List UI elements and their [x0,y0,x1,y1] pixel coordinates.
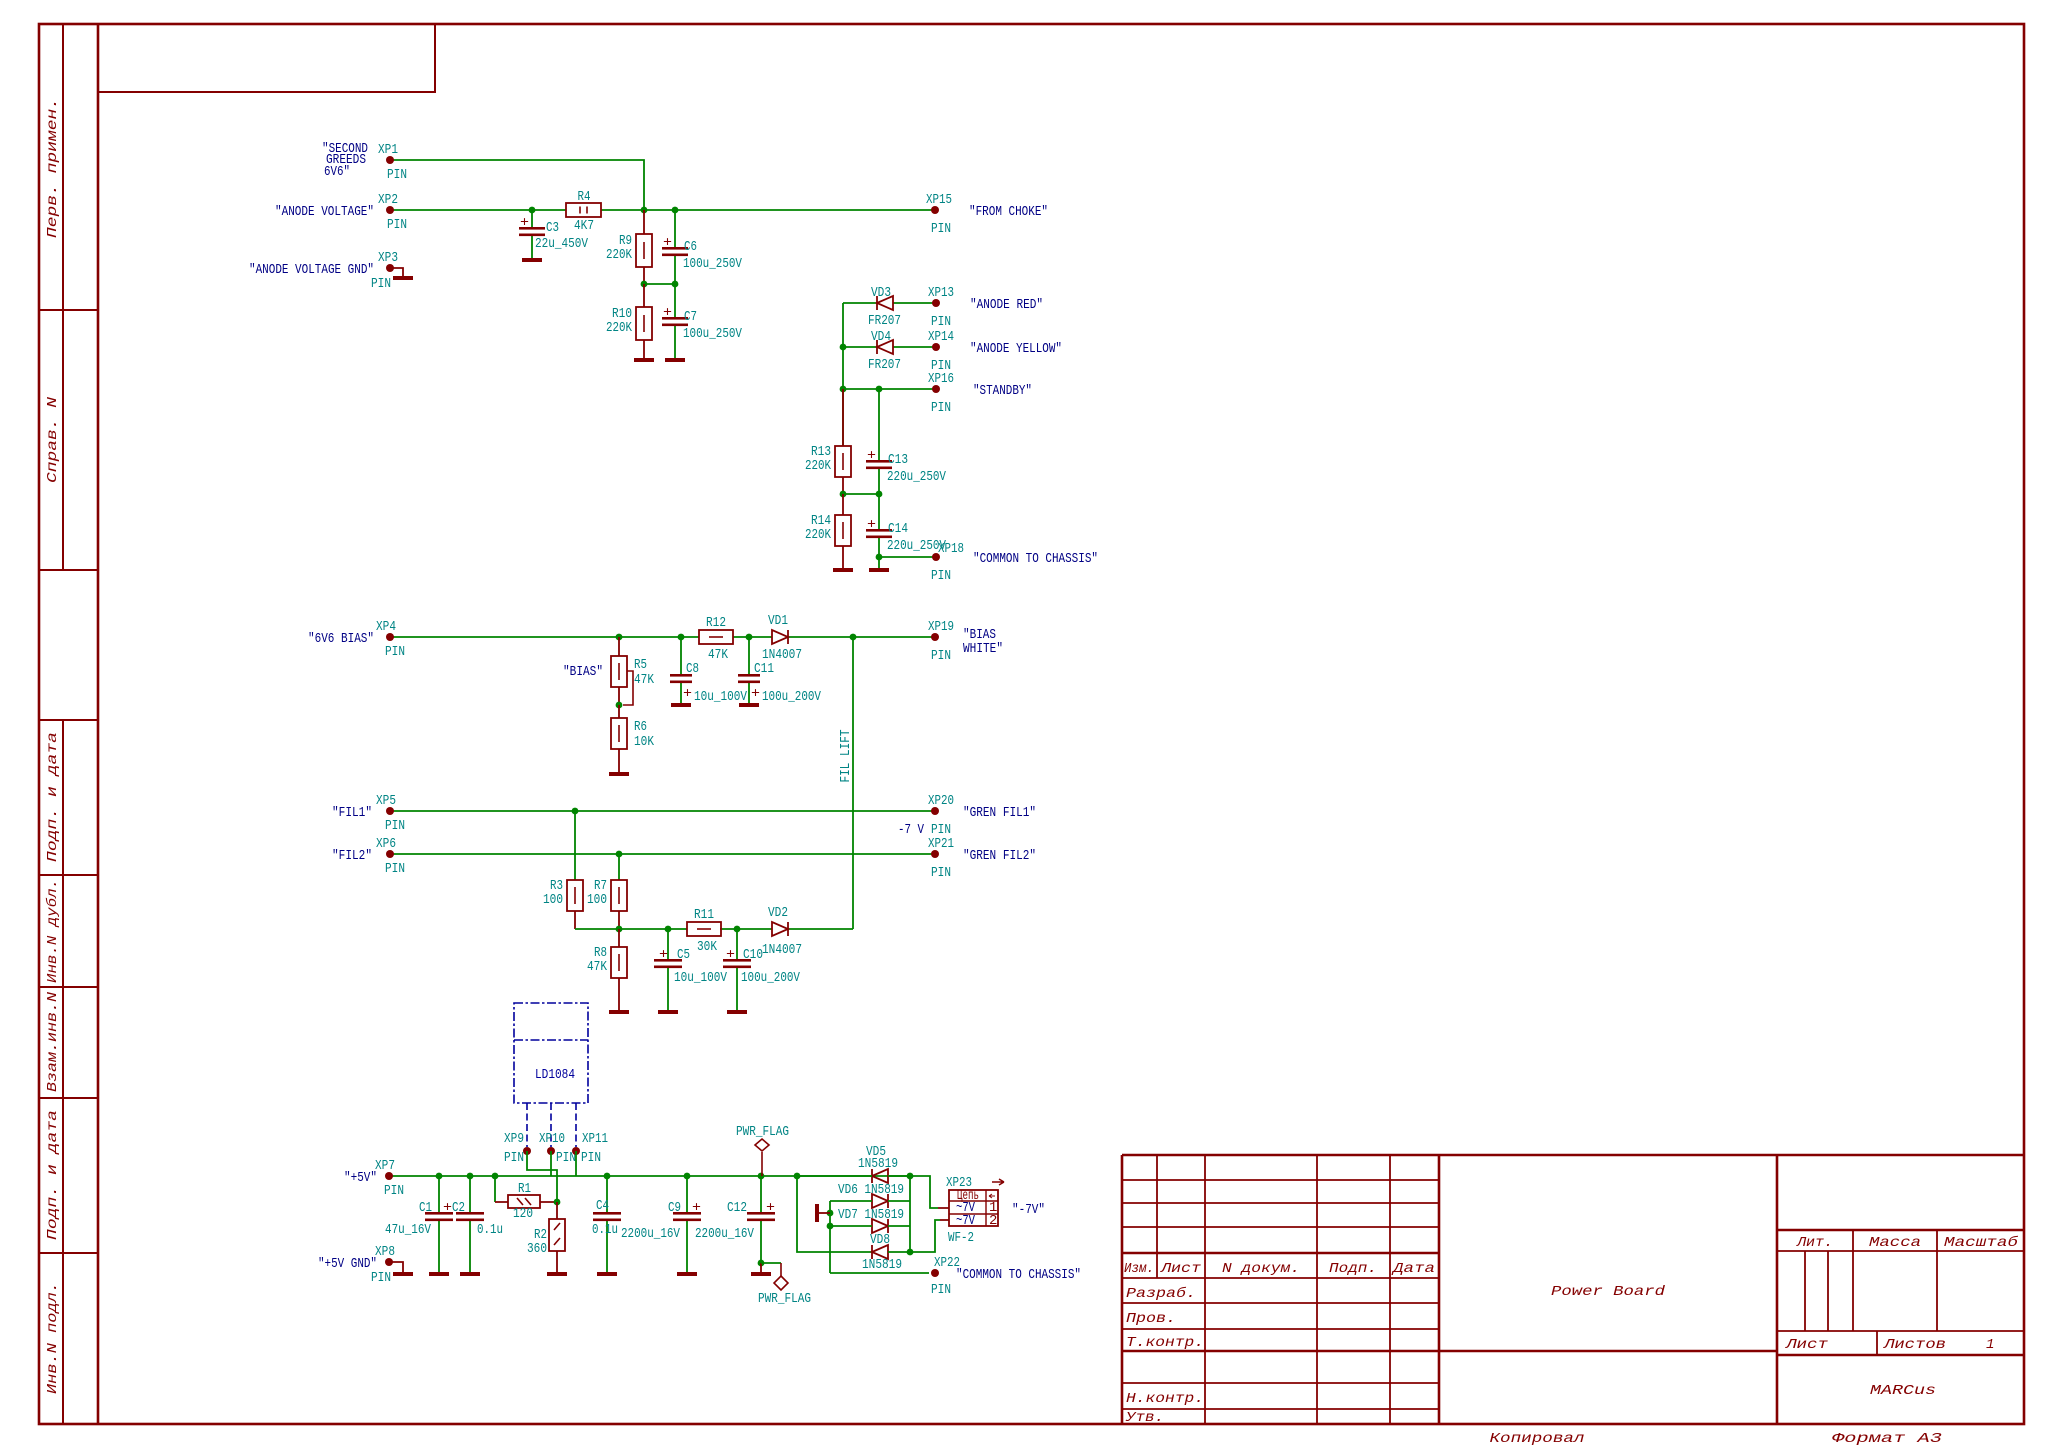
svg-text:Разраб.: Разраб. [1126,1285,1196,1302]
resistor R8 [587,929,627,1010]
resistor R10 [606,284,652,358]
left column box Inv N dubl [39,875,98,987]
diode VD8 1N5819 [872,1245,888,1259]
svg-text:PIN: PIN [371,276,391,292]
capacitor C4 [592,1176,621,1272]
capacitor C5 [654,929,727,1010]
svg-text:C13: C13 [888,452,908,468]
resistor R6 [611,705,654,772]
wire XP5 to XP20 [390,810,935,812]
wire +5V bus [389,1176,938,1208]
svg-text:"BIAS": "BIAS" [563,664,603,680]
junction VD4 [840,344,847,351]
svg-text:+: + [659,947,668,963]
svg-text:Подп.: Подп. [1329,1261,1377,1277]
junction VD5 left [794,1173,801,1180]
connector XP22 [931,1269,939,1277]
wire VD6 row [830,1200,910,1202]
title block right section lines [1777,1250,2024,1252]
wire FIL LIFT vertical [852,637,854,929]
junction VD7 left [827,1223,834,1230]
junction C5 [665,926,672,933]
connector XP14 [932,343,940,351]
svg-text:XP9: XP9 [504,1131,524,1147]
svg-text:-7 V: -7 V [898,822,924,838]
svg-text:6V6": 6V6" [324,164,350,180]
capacitor C9 [621,1176,701,1272]
svg-text:C10: C10 [743,947,763,963]
connector XP23 [938,1175,1004,1246]
svg-text:XP19: XP19 [928,619,954,635]
svg-text:R12: R12 [706,615,726,631]
svg-text:C9: C9 [668,1200,681,1216]
wire vertical VD3 branch [842,303,844,446]
svg-text:XP3: XP3 [378,250,398,266]
svg-text:Н.контр.: Н.контр. [1126,1391,1204,1407]
svg-text:"FROM CHOKE": "FROM CHOKE" [969,204,1048,220]
svg-text:"FIL1": "FIL1" [332,805,372,821]
wire node R9-C6 [644,283,675,285]
wire VD8 row to XP23 pin2 [888,1220,940,1252]
svg-text:100u_250V: 100u_250V [683,256,742,272]
title block outline [1122,1154,2024,1157]
svg-text:47K: 47K [708,647,728,663]
wire XP1 to node [390,160,644,210]
svg-text:22u_450V: 22u_450V [535,236,588,252]
connector XP20 [931,807,939,815]
wire XP2 to R4 [390,209,566,211]
svg-text:PIN: PIN [931,221,951,237]
junction R3 top [572,808,579,815]
svg-text:XP21: XP21 [928,836,954,852]
svg-text:47u_16V: 47u_16V [385,1222,431,1238]
svg-text:Утв.: Утв. [1125,1410,1164,1426]
wire XP11 to bus [575,1151,577,1176]
svg-text:"+5V": "+5V" [344,1170,377,1186]
wire right branch B down [909,1176,911,1252]
svg-text:220K: 220K [805,527,831,543]
ground at C14 [869,568,889,572]
svg-text:C12: C12 [727,1200,747,1216]
svg-text:XP10: XP10 [539,1131,565,1147]
svg-text:+: + [683,686,692,702]
svg-text:~7V: ~7V [956,1213,975,1229]
wire XP4 to R12 [390,636,699,638]
junction at C3 [529,207,536,214]
resistor R13 [805,389,851,494]
left column box Sprav N [39,310,98,570]
ground at C12 [751,1272,771,1276]
svg-text:VD8: VD8 [870,1232,890,1248]
svg-text:PIN: PIN [931,568,951,584]
connector XP21 [931,850,939,858]
svg-text:Power Board: Power Board [1551,1284,1666,1300]
connector XP2 [386,206,394,214]
svg-text:XP20: XP20 [928,793,954,809]
wire XP22 row [830,1272,929,1274]
svg-text:PIN: PIN [931,1282,951,1298]
connector XP9 [523,1147,531,1155]
junction R1 left [492,1173,499,1180]
svg-text:VD1: VD1 [768,613,788,629]
svg-text:Формат A3: Формат A3 [1832,1431,1942,1447]
svg-text:Подп. и дата: Подп. и дата [45,732,61,862]
junction at C6 [672,207,679,214]
junction R5 top [616,634,623,641]
left column rotated labels [44,98,61,1394]
svg-text:C14: C14 [888,521,908,537]
svg-text:PIN: PIN [931,314,951,330]
svg-text:PIN: PIN [385,818,405,834]
pin bar connector [817,1204,830,1222]
svg-text:MARCus: MARCus [1870,1383,1936,1399]
svg-text:1N5819: 1N5819 [862,1257,902,1273]
junction R5-R6 [616,702,623,709]
connector XP13 [932,299,940,307]
svg-text:C7: C7 [684,309,697,325]
connector XP5 [386,807,394,815]
wire XP18 row [879,557,935,568]
svg-text:Изм.: Изм. [1124,1261,1154,1277]
svg-text:360: 360 [527,1241,547,1257]
wire XP6 to XP21 [390,853,935,855]
left column box Inv N podl [39,1253,98,1424]
svg-text:120: 120 [513,1206,533,1222]
capacitor C1 [385,1176,453,1272]
capacitor C14 [866,494,946,557]
junction C9 [684,1173,691,1180]
net label SECOND GREEDS 6V6 [322,141,368,180]
svg-text:100u_200V: 100u_200V [741,970,800,986]
svg-text:+: + [663,235,672,251]
ground at R2 [547,1272,567,1276]
capacitor C8 [670,637,747,705]
svg-text:"ANODE YELLOW": "ANODE YELLOW" [970,341,1062,357]
svg-text:VD7 1N5819: VD7 1N5819 [838,1207,904,1223]
wire XP9 to R1 node [527,1151,557,1202]
junction C4 [604,1173,611,1180]
svg-text:VD4: VD4 [871,329,891,345]
svg-text:PIN: PIN [384,1183,404,1199]
connector XP7 [385,1172,393,1180]
resistor R12 [699,615,733,663]
svg-text:PIN: PIN [387,167,407,183]
title block left table lines [1156,1155,1158,1278]
ground at C9 [677,1272,697,1276]
wire XP10 to bus [550,1151,552,1176]
svg-text:220u_250V: 220u_250V [887,469,946,485]
junction R1-R2 node [554,1199,561,1206]
connector XP11 [572,1147,580,1155]
resistor R11 [687,907,721,955]
wire XP8 to ground [389,1262,403,1272]
svg-text:"ANODE VOLTAGE": "ANODE VOLTAGE" [275,204,374,220]
svg-text:"-7V": "-7V" [1012,1202,1045,1218]
svg-text:VD6 1N5819: VD6 1N5819 [838,1182,904,1198]
svg-text:PIN: PIN [931,865,951,881]
capacitor C10 [723,929,800,1010]
capacitor C3 [519,210,588,258]
net label BIAS WHITE [963,627,1003,657]
svg-text:XP6: XP6 [376,836,396,852]
junction R7-R8 [616,926,623,933]
svg-text:R5: R5 [634,657,647,673]
svg-text:Т.контр.: Т.контр. [1126,1335,1204,1351]
svg-text:2: 2 [989,1213,997,1229]
wire R4 to XP15 [601,209,935,211]
svg-text:R6: R6 [634,719,647,735]
junction VD8 right [907,1249,914,1256]
svg-text:"STANDBY": "STANDBY" [973,383,1032,399]
svg-text:C2: C2 [452,1200,465,1216]
svg-text:Справ. N: Справ. N [45,396,61,483]
svg-text:+: + [726,947,735,963]
left column box Perv primen [39,24,98,310]
svg-text:PIN: PIN [931,648,951,664]
regulator block LD1084 [514,1003,588,1103]
ground at XP3 [393,276,413,280]
svg-text:R4: R4 [578,189,591,205]
power flag PWR_FLAG top [736,1124,789,1176]
junction C12 [758,1173,765,1180]
ground at C4 [597,1272,617,1276]
svg-text:220K: 220K [606,320,632,336]
svg-text:"6V6 BIAS": "6V6 BIAS" [308,631,374,647]
diode VD3 FR207 [877,296,893,310]
left column box Podp i data 1 [39,720,98,875]
svg-text:R1: R1 [518,1181,531,1197]
ground at C1 [429,1272,449,1276]
junction bar tap [827,1210,834,1217]
inner frame left border [97,24,100,1424]
svg-text:"GREN FIL2": "GREN FIL2" [963,848,1036,864]
svg-text:Дата: Дата [1391,1261,1435,1277]
svg-text:Лит.: Лит. [1796,1235,1833,1251]
capacitor C13 [866,389,946,494]
wire R12 to VD1 [733,636,772,638]
resistor R7 [587,854,627,929]
ground at C2 [460,1272,480,1276]
svg-text:Листов: Листов [1883,1337,1946,1353]
svg-text:0.1u: 0.1u [477,1222,503,1238]
junction C12 ground node [758,1260,765,1267]
connector XP16 [932,385,940,393]
wire VD3 row [843,302,935,304]
svg-text:FR207: FR207 [868,313,901,329]
wire node R13-C13 [843,493,879,495]
diode VD1 1N4007 [772,630,788,644]
svg-text:Лист: Лист [1785,1337,1829,1353]
svg-text:4K7: 4K7 [574,218,594,234]
connector XP8 [385,1258,393,1266]
svg-text:Масса: Масса [1869,1235,1921,1251]
svg-text:"GREN FIL1": "GREN FIL1" [963,805,1036,821]
capacitor C12 [695,1176,775,1263]
svg-text:"+5V GND": "+5V GND" [318,1256,377,1272]
junction C2 [467,1173,474,1180]
svg-text:XP11: XP11 [582,1131,608,1147]
svg-text:Инв.N дубл.: Инв.N дубл. [44,879,61,983]
resistor R9 [606,210,652,284]
svg-text:XP7: XP7 [375,1158,395,1174]
svg-text:"ANODE RED": "ANODE RED" [970,297,1043,313]
diode VD5 1N5819 [872,1169,888,1183]
svg-text:Инв.N подл.: Инв.N подл. [45,1282,61,1394]
svg-text:Лист: Лист [1160,1261,1202,1277]
svg-text:+: + [443,1200,452,1216]
junction VD5 right [907,1173,914,1180]
capacitor C11 [738,637,821,705]
svg-text:10u_100V: 10u_100V [694,689,747,705]
svg-text:1: 1 [1986,1337,1994,1353]
svg-text:+: + [766,1200,775,1216]
trimmer R5 [611,637,654,705]
ground at C3 [522,258,542,262]
svg-text:0.1u: 0.1u [592,1222,618,1238]
svg-text:PWR_FLAG: PWR_FLAG [736,1124,789,1140]
svg-text:100u_250V: 100u_250V [683,326,742,342]
junction XP18 [876,554,883,561]
ground at C7 [665,358,685,362]
wire C12 node to ground [760,1263,762,1272]
wire left branch down to VD8 [797,1176,872,1252]
ground at R6 [609,772,629,776]
ground at C8 [671,703,691,707]
junction XP16 row C13 [876,386,883,393]
connector XP18 [932,553,940,561]
svg-text:C3: C3 [546,220,559,236]
resistor R4 [566,189,601,234]
svg-text:C4: C4 [596,1198,609,1214]
diode VD2 1N4007 [772,922,788,936]
svg-text:WHITE": WHITE" [963,641,1003,657]
svg-text:XP8: XP8 [375,1244,395,1260]
svg-text:FIL LIFT: FIL LIFT [838,730,854,783]
top-left reference box [98,24,435,92]
svg-text:220K: 220K [805,458,831,474]
svg-text:VD2: VD2 [768,905,788,921]
svg-text:FR207: FR207 [868,357,901,373]
svg-text:"ANODE VOLTAGE GND": "ANODE VOLTAGE GND" [249,262,374,278]
connector XP10 [547,1147,555,1155]
svg-text:PIN: PIN [504,1150,524,1166]
svg-text:XP13: XP13 [928,285,954,301]
svg-text:Подп. и дата: Подп. и дата [45,1110,61,1240]
ground at R10 [634,358,654,362]
svg-text:30K: 30K [697,939,717,955]
ground at R14 [833,568,853,572]
wire XP3 to ground [390,268,403,276]
LD1084 pin stubs [527,1103,576,1147]
capacitor C7 [662,284,742,358]
svg-text:XP4: XP4 [376,619,396,635]
svg-text:100: 100 [543,892,563,908]
svg-text:"COMMON TO CHASSIS": "COMMON TO CHASSIS" [973,551,1098,567]
svg-text:XP18: XP18 [938,541,964,557]
TITLE BLOCK [1122,1155,2024,1424]
connector XP6 [386,850,394,858]
diode VD7 1N5819 [872,1219,888,1233]
connector XP3 [386,264,394,272]
power flag PWR_FLAG bottom [758,1263,811,1307]
svg-text:+: + [520,215,529,231]
svg-text:47K: 47K [587,959,607,975]
svg-text:PIN: PIN [385,861,405,877]
svg-text:+: + [692,1200,701,1216]
wire bias return row [575,928,853,930]
svg-text:Копировал: Копировал [1490,1431,1585,1447]
svg-text:XP23: XP23 [946,1175,972,1191]
wire VD5 row [797,1175,910,1177]
svg-text:+: + [867,517,876,533]
junction C8 top [678,634,685,641]
svg-text:10K: 10K [634,734,654,750]
svg-text:XP16: XP16 [928,371,954,387]
junction R7 top [616,851,623,858]
svg-text:C5: C5 [677,947,690,963]
junction C11 top [746,634,753,641]
svg-text:1N4007: 1N4007 [762,942,802,958]
wire VD4 row [843,346,935,348]
svg-text:XP5: XP5 [376,793,396,809]
svg-text:+: + [751,686,760,702]
svg-text:XP1: XP1 [378,142,398,158]
svg-text:10u_100V: 10u_100V [674,970,727,986]
resistor R2 [527,1202,565,1272]
wire XP16 row [843,388,935,390]
svg-text:C1: C1 [419,1200,432,1216]
junction node XP1/R9 [641,207,648,214]
svg-text:Масштаб: Масштаб [1944,1234,2019,1251]
resistor R14 [805,494,851,568]
svg-text:WF-2: WF-2 [948,1230,974,1246]
left column box Vzam inv N [39,987,98,1098]
svg-text:2200u_16V: 2200u_16V [695,1226,754,1242]
ground at C11 [739,703,759,707]
wire VD1 to XP19 [788,636,935,638]
junction FIL LIFT [850,634,857,641]
junction C1 [436,1173,443,1180]
svg-text:XP14: XP14 [928,329,954,345]
svg-text:XP15: XP15 [926,192,952,208]
svg-text:PIN: PIN [931,400,951,416]
svg-text:XP2: XP2 [378,192,398,208]
svg-text:Пров.: Пров. [1126,1311,1176,1327]
capacitor C2 [452,1176,503,1272]
wire VD7 row [830,1225,910,1227]
junction C10 [734,926,741,933]
svg-text:220K: 220K [606,247,632,263]
ground at R8 [609,1010,629,1014]
connector XP1 [386,156,394,164]
svg-text:C8: C8 [686,661,699,677]
svg-text:C6: C6 [684,239,697,255]
svg-text:Взам.инв.N: Взам.инв.N [45,991,61,1092]
svg-text:PWR_FLAG: PWR_FLAG [758,1291,811,1307]
svg-text:"COMMON TO CHASSIS": "COMMON TO CHASSIS" [956,1267,1081,1283]
svg-text:100u_200V: 100u_200V [762,689,821,705]
diode VD6 1N5819 [872,1194,888,1208]
diode VD4 FR207 [877,340,893,354]
capacitor C6 [662,210,742,284]
ground at C5 [658,1010,678,1014]
svg-text:+: + [867,448,876,464]
svg-text:C11: C11 [754,661,774,677]
svg-text:PIN: PIN [581,1150,601,1166]
svg-text:47K: 47K [634,672,654,688]
ground at XP8 [393,1272,413,1276]
connector XP19 [931,633,939,641]
